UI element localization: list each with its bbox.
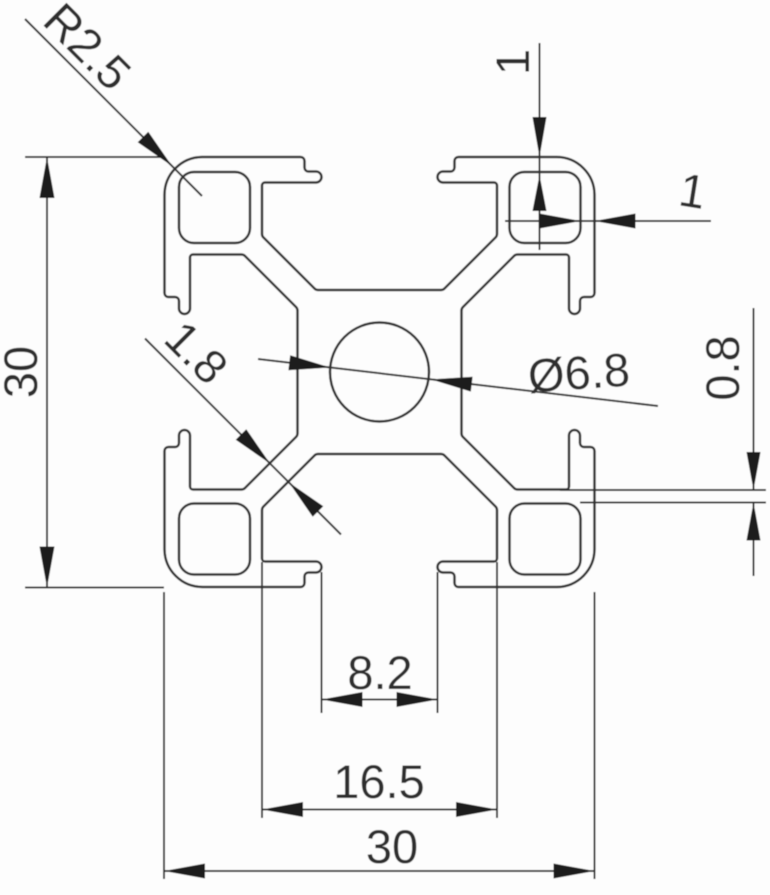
dim 0.8: dimension line <box>753 308 755 576</box>
dim 1.8: leader line <box>145 339 341 535</box>
dim 30 left: extension lines <box>25 157 164 588</box>
dim R2.5: arrow <box>138 132 172 166</box>
dim 16.5: dimension line <box>262 809 497 811</box>
profile outer contour with T-slots <box>165 157 595 587</box>
dim 16.5: extension lines <box>262 562 497 818</box>
svg-text:16.5: 16.5 <box>333 755 424 808</box>
dim 30 left: dimension line <box>46 157 48 588</box>
corner screw channel hole BR <box>510 504 581 575</box>
dim 8.2: dimension line <box>322 699 438 701</box>
svg-text:Ø6.8: Ø6.8 <box>526 343 631 403</box>
dim 8.2: extension lines <box>322 572 438 713</box>
svg-text:30: 30 <box>0 346 47 398</box>
dim 1 top: arrows <box>533 117 547 157</box>
dim 30 bottom: dimension line <box>164 870 595 872</box>
dim 1 top: dimension line <box>539 43 541 250</box>
dim 16.5: arrows <box>262 802 303 817</box>
svg-text:8.2: 8.2 <box>347 646 412 699</box>
dim 1 right: dimension line <box>505 220 711 222</box>
svg-text:30: 30 <box>366 820 418 873</box>
svg-text:0.8: 0.8 <box>696 335 749 400</box>
center bore circle <box>330 323 429 422</box>
dim 1 right: arrows <box>540 214 581 229</box>
dim dia6.8: arrows <box>288 355 330 370</box>
dim 1.8: arrows <box>236 429 270 463</box>
dim 30 bottom: arrows <box>164 864 205 879</box>
dim dia6.8: leader line <box>258 359 658 406</box>
dim 30 bottom: extension lines <box>164 592 595 879</box>
corner screw channel hole TR <box>510 172 581 243</box>
dim 0.8: extension lines <box>560 490 766 503</box>
corner screw channel hole BL <box>179 504 250 575</box>
dim 8.2: arrows <box>322 692 363 707</box>
dim 0.8: arrows <box>747 452 761 490</box>
dim 30 left: arrows <box>40 157 55 198</box>
corner screw channel hole TL <box>179 172 250 243</box>
dim R2.5: leader line <box>25 19 202 196</box>
svg-text:1: 1 <box>486 49 539 75</box>
